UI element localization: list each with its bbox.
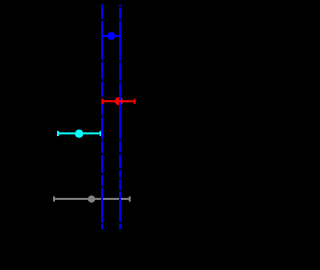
gray errorbar right cap <box>129 196 131 201</box>
blue errorbar right cap <box>119 32 121 40</box>
gray errorbar left cap <box>53 196 55 201</box>
gray errorbar line <box>54 198 130 200</box>
left dashed blue vertical line <box>101 5 103 230</box>
cyan errorbar right cap <box>100 131 102 136</box>
blue errorbar left cap <box>101 32 103 40</box>
cyan errorbar left cap <box>57 131 59 136</box>
right dashed blue vertical line <box>119 5 121 229</box>
cyan marker <box>75 130 83 138</box>
red marker <box>115 97 123 105</box>
red errorbar right cap <box>134 99 136 104</box>
red errorbar left cap <box>102 99 104 104</box>
blue errorbar line <box>102 35 120 37</box>
blue marker <box>107 32 115 40</box>
gray marker <box>88 195 95 202</box>
cyan errorbar line <box>58 132 101 134</box>
red errorbar line <box>103 100 135 102</box>
